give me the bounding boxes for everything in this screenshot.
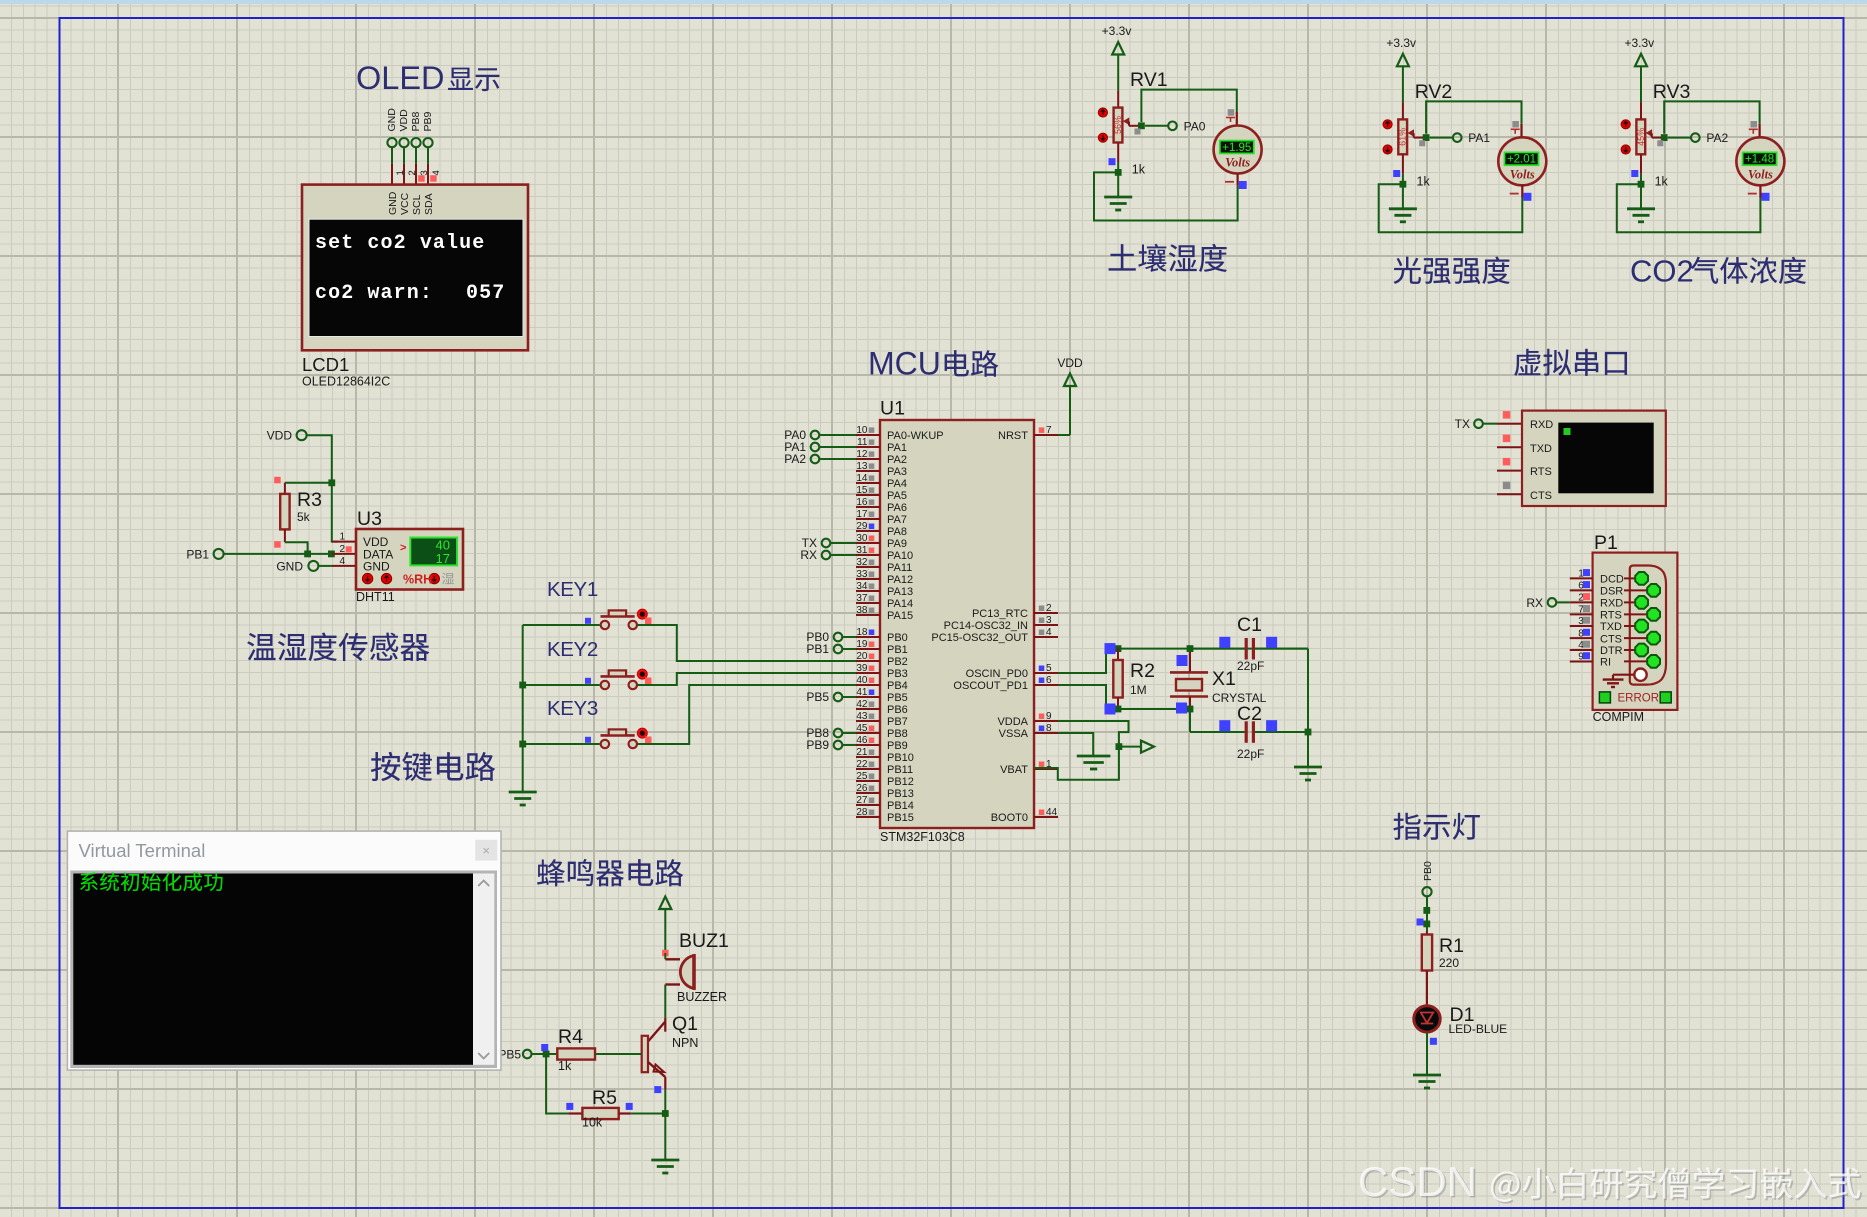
capacitor C1 plates bbox=[1245, 638, 1248, 660]
svg-text:PB5: PB5 bbox=[806, 690, 829, 704]
voltmeter + mark (RV2) bbox=[1511, 128, 1520, 130]
svg-text:18: 18 bbox=[856, 627, 868, 638]
svg-text:PB8: PB8 bbox=[887, 728, 908, 740]
marker blue square R2 top bbox=[1105, 643, 1116, 654]
svg-text:PA13: PA13 bbox=[887, 586, 913, 598]
U1 pin 27 (PB14) bbox=[856, 804, 880, 806]
svg-text:5k: 5k bbox=[297, 510, 311, 524]
svg-text:PA4: PA4 bbox=[887, 478, 907, 490]
marker blue square voltmeter - (RV2) bbox=[1523, 193, 1531, 201]
svg-text:PB11: PB11 bbox=[887, 764, 913, 776]
junction R2 top bbox=[1115, 645, 1122, 652]
marker blue square R5 left bbox=[566, 1103, 573, 1110]
section title 虚拟串口 bbox=[1514, 349, 1627, 376]
voltmeter RV1 lead top bbox=[1236, 112, 1238, 126]
svg-text:RX: RX bbox=[800, 548, 817, 562]
junction KEY3 trunk bbox=[519, 741, 526, 748]
terminal PB1 (U1) bbox=[834, 645, 843, 654]
wire pot bottom lead (RV1) bbox=[1117, 143, 1119, 163]
svg-text:PB5: PB5 bbox=[887, 692, 908, 704]
svg-text:PB4: PB4 bbox=[887, 680, 908, 692]
svg-text:%RH: %RH bbox=[403, 572, 432, 586]
svg-text:PB1: PB1 bbox=[887, 644, 908, 656]
U1 pin 34 (PA13) bbox=[856, 590, 880, 592]
svg-text:61%: 61% bbox=[1398, 128, 1408, 146]
svg-text:39: 39 bbox=[856, 663, 868, 674]
potentiometer RV2 adjust icons bbox=[1383, 120, 1392, 129]
U1 pin 14 (PA4) bbox=[856, 482, 880, 484]
wire R5 to emitter bbox=[631, 1113, 666, 1115]
svg-text:Volts: Volts bbox=[1510, 167, 1535, 181]
svg-text:45%: 45% bbox=[1636, 128, 1646, 146]
junction DATA net node bbox=[304, 551, 311, 558]
marker blue squares C1 bbox=[1219, 637, 1230, 648]
wire C2 rail left bbox=[1190, 731, 1245, 733]
svg-text:2: 2 bbox=[1046, 603, 1052, 614]
svg-text:2: 2 bbox=[339, 544, 345, 555]
marker blue square X1 top bbox=[1177, 655, 1188, 666]
wire C1 right down bbox=[1307, 649, 1309, 732]
junction marks PB0 wire bbox=[1423, 907, 1430, 914]
svg-text:PB0: PB0 bbox=[887, 632, 908, 644]
switch KEY2 bbox=[601, 681, 609, 689]
marker blue square R5 right bbox=[626, 1103, 633, 1110]
svg-text:VDDA: VDDA bbox=[997, 716, 1028, 728]
svg-text:3: 3 bbox=[1046, 615, 1052, 626]
svg-text:8: 8 bbox=[1046, 723, 1052, 734]
section title 土壤湿度 bbox=[1109, 244, 1228, 272]
VT pin stubs bbox=[1497, 423, 1522, 425]
svg-text:6: 6 bbox=[1046, 675, 1052, 686]
svg-text:PB14: PB14 bbox=[887, 800, 914, 812]
svg-text:LED-BLUE: LED-BLUE bbox=[1449, 1022, 1508, 1036]
marker blue square PB5 bbox=[541, 1044, 548, 1051]
svg-text:GND: GND bbox=[387, 191, 399, 215]
marker blue square emitter bbox=[654, 1086, 661, 1093]
U1 pin 5 (OSCIN_PD0) bbox=[1034, 672, 1058, 674]
svg-text:KEY1: KEY1 bbox=[547, 578, 598, 601]
transistor Q1 emitter bbox=[648, 1062, 665, 1077]
switch KEY1 bbox=[601, 621, 609, 629]
U1 pin 7 (NRST) bbox=[1034, 434, 1058, 436]
wire to ground (crystal) bbox=[1307, 732, 1309, 767]
VT screen bbox=[1558, 423, 1653, 494]
U1 pin 19 (PB1) bbox=[856, 648, 880, 650]
junction emitter/R5 node bbox=[662, 1110, 669, 1117]
switch KEY3 bbox=[601, 740, 609, 748]
resistor R2 body bbox=[1113, 660, 1122, 698]
VT screen cursor bbox=[1564, 428, 1571, 435]
wire voltmeter - loop (RV3) bbox=[1617, 184, 1761, 232]
svg-text:22pF: 22pF bbox=[1237, 747, 1264, 761]
svg-text:22: 22 bbox=[856, 759, 868, 770]
U1 pin 18 (PB0) bbox=[856, 636, 880, 638]
svg-text:43: 43 bbox=[856, 711, 868, 722]
svg-text:PB7: PB7 bbox=[887, 716, 908, 728]
svg-text:R2: R2 bbox=[1130, 660, 1155, 682]
U1 pin 37 (PA14) bbox=[856, 602, 880, 604]
terminal PB0 (U1) bbox=[834, 633, 843, 642]
wire C1 right bbox=[1255, 648, 1308, 650]
U1 pin 22 (PB11) bbox=[856, 768, 880, 770]
svg-text:co2 warn:: co2 warn: bbox=[315, 282, 433, 305]
U1 pin 8 (VSSA) bbox=[1034, 732, 1058, 734]
section title 蜂鸣器电路 bbox=[537, 859, 683, 886]
svg-text:11: 11 bbox=[857, 437, 868, 448]
svg-text:26: 26 bbox=[856, 783, 868, 794]
junction VDDA/VBAT node bbox=[1116, 743, 1123, 750]
svg-text:10k: 10k bbox=[582, 1116, 603, 1130]
svg-text:PA9: PA9 bbox=[887, 538, 907, 550]
svg-text:PB8: PB8 bbox=[410, 111, 422, 131]
svg-text:PB1: PB1 bbox=[186, 547, 209, 561]
wire VSSA to ground bbox=[1058, 733, 1093, 756]
voltmeter RV1 body bbox=[1214, 126, 1262, 174]
marker gray square wiper (RV2) bbox=[1419, 140, 1425, 146]
resistor R2 lead top bbox=[1117, 649, 1119, 660]
U3 humidity char bbox=[442, 573, 454, 585]
junction wiper node (RV2) bbox=[1423, 134, 1430, 141]
svg-text:12: 12 bbox=[856, 449, 868, 460]
svg-text:27: 27 bbox=[856, 795, 868, 806]
wire R4 to Q1 base bbox=[595, 1053, 642, 1055]
LCD1 pin 2 lead bbox=[403, 147, 405, 164]
junction wiper node (RV1) bbox=[1138, 122, 1145, 129]
potentiometer RV3 wiper bbox=[1646, 129, 1653, 137]
svg-text:BOOT0: BOOT0 bbox=[991, 812, 1028, 824]
wire top rail bbox=[1106, 648, 1308, 650]
ground symbol (keys) bbox=[509, 791, 537, 794]
svg-text:TX: TX bbox=[1455, 417, 1470, 431]
wire bottom rail bbox=[1106, 708, 1190, 710]
svg-text:PA12: PA12 bbox=[887, 574, 913, 586]
svg-text:U1: U1 bbox=[880, 398, 905, 420]
svg-text:16: 16 bbox=[856, 497, 868, 508]
virtual terminal component body bbox=[1522, 411, 1666, 506]
svg-text:28: 28 bbox=[856, 807, 868, 818]
wire pot top lead (RV3) bbox=[1640, 102, 1642, 119]
wire pot bottom lead (RV2) bbox=[1402, 154, 1404, 174]
svg-text:PB1: PB1 bbox=[806, 642, 829, 656]
marker blue squares C2 bbox=[1219, 720, 1230, 731]
marker red square buzzer top bbox=[662, 950, 669, 957]
Virtual Terminal window bbox=[67, 831, 501, 1070]
U1 pin 13 (PA3) bbox=[856, 470, 880, 472]
wire C2 rail right bbox=[1255, 731, 1308, 733]
marker blue square pot bottom (RV2) bbox=[1393, 170, 1400, 177]
svg-text:PB9: PB9 bbox=[887, 740, 908, 752]
crystal X1 body bbox=[1176, 679, 1202, 691]
voltmeter + mark (RV1) bbox=[1226, 117, 1235, 119]
marker gray square wiper (RV3) bbox=[1657, 140, 1663, 146]
potentiometer RV1 adjust icons bbox=[1098, 108, 1107, 117]
svg-text:44: 44 bbox=[1046, 807, 1058, 818]
svg-text:45: 45 bbox=[856, 723, 868, 734]
P1 pin stubs and numbers bbox=[1570, 577, 1593, 579]
marker blue square voltmeter - (RV3) bbox=[1762, 193, 1770, 201]
svg-text:42: 42 bbox=[856, 699, 868, 710]
U1 pin 41 (PB5) bbox=[856, 696, 880, 698]
svg-text:PB13: PB13 bbox=[887, 788, 914, 800]
svg-text:P1: P1 bbox=[1594, 532, 1618, 554]
svg-text:RXD: RXD bbox=[1530, 419, 1553, 431]
svg-text:PA10: PA10 bbox=[887, 550, 913, 562]
terminal TX (U1) bbox=[822, 539, 831, 548]
ground symbol (buzzer) bbox=[651, 1159, 679, 1162]
svg-text:ERROR: ERROR bbox=[1618, 693, 1660, 705]
OLED header terminal PB9 bbox=[423, 138, 432, 147]
svg-text:CO2: CO2 bbox=[1630, 254, 1694, 289]
marker red square R3 bottom bbox=[274, 541, 281, 548]
svg-text:19: 19 bbox=[856, 639, 868, 650]
marker gray square wiper (RV1) bbox=[1135, 129, 1141, 135]
svg-text:13: 13 bbox=[856, 461, 868, 472]
crystal X1 lead bottom bbox=[1189, 697, 1191, 710]
svg-text:PA1: PA1 bbox=[887, 442, 907, 454]
OLED header terminal VDD bbox=[399, 138, 408, 147]
voltmeter RV2 lead bottom bbox=[1521, 185, 1523, 197]
svg-text:RV3: RV3 bbox=[1653, 81, 1691, 103]
U1 pin 29 (PA8) bbox=[856, 530, 880, 532]
U3 pin stubs bbox=[332, 541, 356, 543]
svg-text:BUZZER: BUZZER bbox=[677, 990, 727, 1004]
wire PB0 down bbox=[1426, 896, 1428, 931]
svg-text:PB3: PB3 bbox=[887, 668, 908, 680]
terminal RX (U1) bbox=[822, 551, 831, 560]
svg-text:set co2 value: set co2 value bbox=[315, 232, 485, 255]
svg-text:VSSA: VSSA bbox=[999, 728, 1029, 740]
svg-text:29: 29 bbox=[856, 521, 868, 532]
junction R2 bottom bbox=[1115, 706, 1122, 713]
svg-text:+3.3v: +3.3v bbox=[1102, 24, 1132, 38]
svg-text:14: 14 bbox=[856, 473, 868, 484]
svg-text:PA8: PA8 bbox=[887, 526, 907, 538]
transistor Q1 collector bbox=[664, 1018, 666, 1032]
svg-text:PA0: PA0 bbox=[1184, 119, 1206, 133]
section title 温湿度传感器 bbox=[247, 633, 429, 662]
voltmeter + mark (RV3) bbox=[1749, 128, 1758, 130]
marker gray square voltmeter + (RV3) bbox=[1751, 121, 1758, 128]
U1 STM32F103C8 body bbox=[880, 420, 1034, 828]
LCD1 pin 4 lead bbox=[427, 147, 429, 164]
voltmeter - mark (RV3) bbox=[1748, 193, 1757, 195]
svg-text:×: × bbox=[482, 843, 490, 858]
svg-text:X1: X1 bbox=[1212, 668, 1236, 690]
ground symbol (RV1) bbox=[1117, 172, 1119, 196]
svg-text:RI: RI bbox=[1600, 657, 1611, 669]
marker gray square voltmeter + (RV1) bbox=[1228, 109, 1235, 116]
U1 pin 4 (PC15-OSC32_OUT) bbox=[1034, 636, 1058, 638]
voltmeter RV3 body bbox=[1736, 137, 1784, 185]
voltmeter - mark (RV1) bbox=[1225, 181, 1234, 183]
U1 pin 17 (PA7) bbox=[856, 518, 880, 520]
svg-text:R5: R5 bbox=[592, 1087, 617, 1109]
svg-text:46: 46 bbox=[856, 735, 868, 746]
U1 pin 26 (PB13) bbox=[856, 792, 880, 794]
svg-text:25: 25 bbox=[856, 771, 868, 782]
top window strip bbox=[0, 0, 1867, 4]
wire buzzer top lead bbox=[664, 953, 666, 959]
svg-text:GND: GND bbox=[276, 559, 303, 573]
U1 pin 30 (PA9) bbox=[856, 542, 880, 544]
svg-text:CSDN: CSDN bbox=[1358, 1158, 1477, 1205]
U1 pin 3 (PC14-OSC32_IN) bbox=[1034, 624, 1058, 626]
potentiometer RV2 body bbox=[1398, 119, 1407, 154]
svg-text:U3: U3 bbox=[357, 508, 382, 530]
transistor Q1 base bar bbox=[642, 1036, 648, 1072]
svg-text:NRST: NRST bbox=[998, 430, 1028, 442]
marker blue square voltmeter - (RV1) bbox=[1239, 181, 1247, 189]
wire OSCOUT_PD1 to bottom rail bbox=[1058, 685, 1106, 709]
svg-text:PB0: PB0 bbox=[1422, 861, 1434, 881]
svg-text:56%: 56% bbox=[1113, 116, 1123, 134]
wire PB5 down to R5 bbox=[546, 1054, 568, 1114]
svg-text:PC13_RTC: PC13_RTC bbox=[972, 608, 1028, 620]
resistor R1 body bbox=[1422, 935, 1432, 971]
OLED header terminal PB8 bbox=[411, 138, 420, 147]
svg-text:PA3: PA3 bbox=[887, 466, 907, 478]
svg-text:PA0-WKUP: PA0-WKUP bbox=[887, 430, 944, 442]
U3 adjust icons bbox=[362, 573, 372, 583]
wire X1 bottom to C2 rail bbox=[1189, 709, 1191, 732]
svg-text:+1.95: +1.95 bbox=[1222, 142, 1251, 154]
wire PB1 to U3 DATA bbox=[224, 553, 332, 555]
U3 DHT11 body bbox=[356, 529, 463, 590]
svg-text:PA5: PA5 bbox=[887, 490, 907, 502]
LED D1 diode glyph bbox=[1421, 1013, 1433, 1024]
terminal PA2 (U1) bbox=[811, 455, 820, 464]
buzzer BUZ1 body bbox=[680, 956, 694, 989]
potentiometer RV3 body bbox=[1636, 119, 1645, 154]
voltmeter RV2 display +2.01 bbox=[1505, 152, 1539, 165]
resistor R3 lead top bbox=[284, 483, 286, 494]
svg-text:PA2: PA2 bbox=[784, 452, 806, 466]
svg-text:33: 33 bbox=[856, 569, 868, 580]
svg-text:PA1: PA1 bbox=[1468, 131, 1490, 145]
svg-text:1M: 1M bbox=[1130, 683, 1147, 697]
svg-text:BUZ1: BUZ1 bbox=[679, 930, 729, 952]
svg-text:17: 17 bbox=[436, 551, 450, 566]
capacitor C2 plates bbox=[1245, 721, 1248, 743]
wire buzzer bottom lead bbox=[665, 983, 680, 985]
svg-text:Q1: Q1 bbox=[672, 1013, 698, 1035]
voltmeter RV2 body bbox=[1498, 137, 1546, 185]
voltmeter RV3 lead bottom bbox=[1759, 185, 1761, 197]
svg-text:RXD: RXD bbox=[1600, 598, 1623, 610]
svg-text:VDD: VDD bbox=[398, 109, 410, 132]
resistor R2 lead bottom bbox=[1117, 698, 1119, 710]
CSDN watermark bbox=[1358, 1158, 1862, 1207]
svg-text:+3.3v: +3.3v bbox=[1386, 36, 1416, 50]
svg-text:PB6: PB6 bbox=[887, 704, 908, 716]
wire pot bottom lead (RV3) bbox=[1640, 154, 1642, 174]
potentiometer RV1 body bbox=[1114, 108, 1123, 143]
svg-text:4: 4 bbox=[431, 170, 442, 175]
svg-text:21: 21 bbox=[856, 747, 868, 758]
svg-text:GND: GND bbox=[363, 559, 390, 573]
svg-text:COMPIM: COMPIM bbox=[1593, 710, 1644, 724]
LCD1 pin 3 lead bbox=[415, 147, 417, 164]
wire wiper to PA2 terminal bbox=[1668, 137, 1691, 139]
voltmeter RV3 display +1.48 bbox=[1743, 152, 1777, 165]
svg-text:SCL: SCL bbox=[411, 194, 423, 215]
svg-text:32: 32 bbox=[856, 557, 868, 568]
junction pot bottom node (RV2) bbox=[1400, 181, 1407, 188]
svg-text:PB10: PB10 bbox=[887, 752, 914, 764]
terminal PB8 (U1) bbox=[834, 729, 843, 738]
wire KEY2 to PB3 bbox=[637, 673, 856, 685]
marker blue square R1 top bbox=[1417, 919, 1424, 926]
terminal PA1 bbox=[1453, 133, 1462, 142]
terminal PA0 (U1) bbox=[811, 431, 820, 440]
svg-text:7: 7 bbox=[1046, 425, 1052, 436]
svg-text:PB12: PB12 bbox=[887, 776, 914, 788]
U1 pin 44 (BOOT0) bbox=[1034, 816, 1058, 818]
wire pot top lead (RV2) bbox=[1402, 102, 1404, 119]
svg-text:MCU: MCU bbox=[868, 346, 941, 382]
wire NRST to VDD bbox=[1058, 434, 1070, 436]
svg-text:9: 9 bbox=[1046, 711, 1052, 722]
svg-text:PC14-OSC32_IN: PC14-OSC32_IN bbox=[944, 620, 1028, 632]
ground symbol (LED) bbox=[1413, 1074, 1441, 1077]
wire KEY1 to PB2 bbox=[637, 625, 856, 661]
U1 pin 45 (PB8) bbox=[856, 732, 880, 734]
svg-text:PB9: PB9 bbox=[806, 738, 829, 752]
section title OLED显示 bbox=[356, 60, 499, 96]
wire R3 bottom to DATA net bbox=[285, 542, 308, 554]
junction DATA pin node bbox=[328, 551, 335, 558]
svg-text:40: 40 bbox=[856, 675, 868, 686]
junction pot bottom node (RV1) bbox=[1115, 169, 1122, 176]
marker blue square pot bottom (RV3) bbox=[1631, 170, 1638, 177]
terminal PB5 (U1) bbox=[834, 693, 843, 702]
terminal PB9 (U1) bbox=[834, 741, 843, 750]
wire KEY1 left bbox=[523, 624, 600, 626]
LCD1 OLED screen bbox=[309, 219, 523, 336]
P1 DB9 pins bbox=[1624, 577, 1636, 579]
P1 internal ground bbox=[1613, 674, 1634, 676]
svg-text:Virtual Terminal: Virtual Terminal bbox=[79, 840, 206, 861]
wire D1 to ground bbox=[1426, 1032, 1428, 1074]
voltmeter RV1 display +1.95 bbox=[1220, 141, 1254, 154]
wire PB5 to R4 bbox=[546, 1053, 557, 1055]
resistor R3 lead bottom bbox=[284, 529, 286, 542]
svg-text:VCC: VCC bbox=[399, 192, 411, 215]
resistor R1 lead top bbox=[1426, 931, 1428, 935]
svg-text:30: 30 bbox=[856, 533, 868, 544]
voltmeter RV3 lead top bbox=[1758, 124, 1760, 138]
wire KEY ground trunk bbox=[522, 625, 524, 792]
svg-text:37: 37 bbox=[856, 593, 868, 604]
U1 pin 25 (PB12) bbox=[856, 780, 880, 782]
svg-text:+3.3v: +3.3v bbox=[1624, 36, 1654, 50]
svg-text:5: 5 bbox=[1046, 663, 1052, 674]
OLED header terminal GND bbox=[387, 138, 396, 147]
svg-text:057: 057 bbox=[466, 282, 505, 305]
wire voltmeter - loop (RV2) bbox=[1379, 184, 1523, 232]
svg-text:VBAT: VBAT bbox=[1000, 764, 1028, 776]
terminal PA0 bbox=[1168, 122, 1177, 131]
U1 pin 46 (PB9) bbox=[856, 744, 880, 746]
U1 pin 1 (VBAT) bbox=[1034, 768, 1058, 770]
svg-text:+2.01: +2.01 bbox=[1507, 154, 1536, 166]
P1 ERROR indicators bbox=[1599, 692, 1610, 703]
svg-text:1k: 1k bbox=[1655, 174, 1669, 188]
wire emitter down bbox=[664, 1090, 666, 1114]
svg-text:PB15: PB15 bbox=[887, 812, 914, 824]
P1 DB9 outline bbox=[1630, 566, 1666, 685]
svg-text:PA2: PA2 bbox=[887, 454, 907, 466]
